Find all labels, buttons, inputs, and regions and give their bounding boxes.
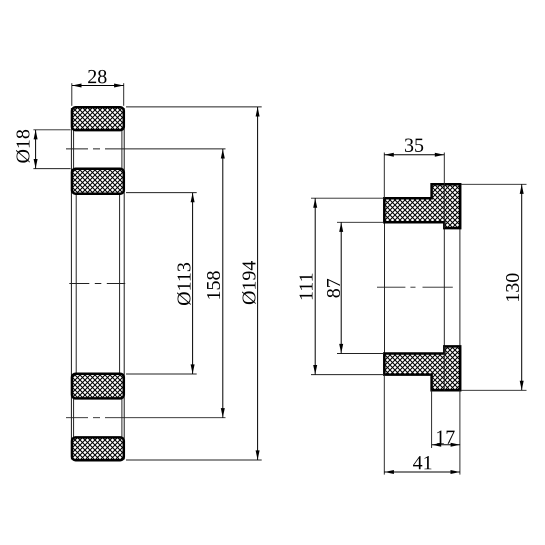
- dimension 35 (hub length, top): [384, 135, 444, 198]
- extension lines below bottom section: [384, 375, 460, 475]
- svg-text:158: 158: [203, 271, 225, 301]
- vertical silhouette line inner bore: [443, 228, 445, 346]
- svg-text:Ø18: Ø18: [13, 129, 35, 163]
- dimension 17 (flange thickness, bottom): [432, 427, 460, 449]
- dimension 130 (flange diameter, right): [462, 184, 527, 390]
- hatched block 2: [72, 169, 124, 194]
- dimension Ø113 (bore): [126, 193, 197, 374]
- svg-text:17: 17: [435, 427, 455, 449]
- centerline right view axis: [377, 286, 455, 288]
- hatched block 4 (bottom ring section): [72, 437, 124, 460]
- svg-text:Ø113: Ø113: [173, 262, 195, 306]
- extension line x=444.2 through sections (for 35): [443, 153, 445, 391]
- centerline top bolt hole: [66, 148, 226, 150]
- top section (hat profile, hatched): [384, 184, 460, 228]
- bolt hole silhouette lines (top hole): [74, 130, 122, 169]
- outer silhouette rectangle: [71, 108, 124, 460]
- vertical silhouette line left (between sections): [384, 222, 386, 353]
- bore silhouette lines: [76, 194, 119, 374]
- svg-text:41: 41: [413, 452, 433, 474]
- dimension 41 (total length, bottom): [384, 452, 460, 474]
- dimension Ø194 (outer diameter): [126, 107, 262, 460]
- svg-text:28: 28: [87, 66, 107, 88]
- dimension 158 (bolt circle): [203, 149, 225, 418]
- dimension 28 (flange width, top): [72, 66, 124, 106]
- hatched block 1 (top ring section): [72, 107, 124, 130]
- svg-text:111: 111: [295, 272, 317, 301]
- svg-text:Ø194: Ø194: [238, 261, 260, 305]
- centerline main axis left view: [69, 283, 125, 285]
- dimension 87 (bore diameter): [323, 222, 384, 353]
- svg-text:130: 130: [502, 273, 524, 303]
- dimension 111 (hub diameter): [295, 198, 384, 374]
- svg-text:87: 87: [323, 278, 345, 298]
- bottom section (hat profile, hatched): [384, 346, 460, 390]
- hatched block 3: [72, 374, 124, 399]
- centerline bottom bolt hole: [66, 417, 226, 419]
- bolt hole silhouette lines (bottom hole): [74, 398, 122, 437]
- vertical silhouette line right edge: [459, 228, 461, 346]
- dimension Ø18 (bolt hole, left): [13, 129, 71, 169]
- svg-text:35: 35: [404, 135, 424, 157]
